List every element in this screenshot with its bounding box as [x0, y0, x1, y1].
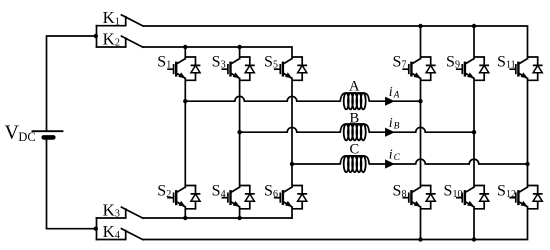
svg-text:C: C — [394, 153, 401, 163]
svg-text:S: S — [497, 54, 506, 71]
svg-text:S: S — [157, 54, 166, 71]
svg-text:S: S — [212, 54, 221, 71]
svg-text:B: B — [394, 121, 400, 131]
svg-text:S: S — [393, 54, 402, 71]
svg-text:i: i — [389, 148, 393, 163]
svg-text:S: S — [264, 54, 273, 71]
svg-text:i: i — [389, 85, 393, 100]
svg-text:C: C — [349, 142, 359, 158]
svg-text:1: 1 — [166, 60, 171, 71]
svg-text:2: 2 — [115, 38, 120, 49]
svg-text:S: S — [212, 183, 221, 200]
svg-text:4: 4 — [115, 230, 120, 241]
svg-text:6: 6 — [273, 189, 278, 200]
svg-text:11: 11 — [506, 60, 516, 71]
svg-text:10: 10 — [453, 189, 463, 200]
svg-text:DC: DC — [18, 130, 35, 144]
svg-text:K: K — [103, 222, 115, 241]
svg-text:5: 5 — [273, 60, 278, 71]
svg-text:B: B — [349, 111, 359, 127]
svg-text:S: S — [157, 183, 166, 200]
svg-text:A: A — [349, 79, 360, 95]
svg-text:A: A — [393, 90, 400, 100]
svg-text:1: 1 — [115, 16, 120, 27]
svg-text:2: 2 — [166, 189, 171, 200]
svg-text:12: 12 — [506, 189, 516, 200]
svg-text:i: i — [389, 116, 393, 131]
svg-text:S: S — [444, 183, 453, 200]
svg-text:4: 4 — [221, 189, 226, 200]
svg-text:7: 7 — [402, 60, 407, 71]
svg-text:S: S — [446, 54, 455, 71]
svg-text:K: K — [103, 8, 115, 27]
svg-text:K: K — [103, 29, 115, 48]
svg-text:V: V — [5, 122, 20, 144]
svg-text:9: 9 — [455, 60, 460, 71]
svg-text:S: S — [497, 183, 506, 200]
svg-text:3: 3 — [221, 60, 226, 71]
svg-text:S: S — [393, 183, 402, 200]
svg-text:3: 3 — [115, 209, 120, 220]
svg-text:S: S — [264, 183, 273, 200]
svg-text:K: K — [103, 200, 115, 219]
svg-text:8: 8 — [402, 189, 407, 200]
